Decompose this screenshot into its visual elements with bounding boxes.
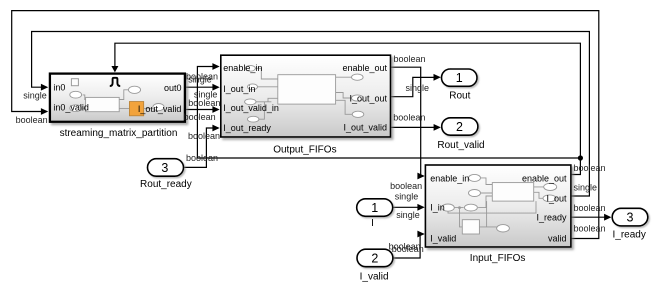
preview ellipse 3 [153, 104, 164, 111]
preview center rect [86, 97, 120, 111]
inport 3 Rout_ready [148, 159, 184, 177]
svg-text:I: I [371, 218, 374, 229]
svg-text:enable_in: enable_in [430, 174, 469, 184]
svg-text:Output_FIFOs: Output_FIFOs [273, 144, 336, 155]
svg-text:single: single [396, 210, 420, 220]
svg-text:Rout_valid: Rout_valid [437, 140, 484, 151]
wire valid net: Input_FIFOs.valid to in0_valid (wraps around top) [12, 11, 599, 239]
arrowhead enable_in Output_FIFOs [212, 63, 219, 70]
svg-text:3: 3 [161, 161, 168, 175]
trigger pulse symbol [110, 78, 120, 86]
wire out0 to I_out_in [185, 86, 218, 88]
inport 2 I_valid [357, 249, 393, 267]
arrowhead I_out_valid_in [212, 106, 219, 113]
preview big rect [492, 183, 533, 202]
arrowhead I_valid [417, 231, 424, 238]
arrowhead Rout [434, 74, 441, 81]
svg-text:streaming_matrix_partition: streaming_matrix_partition [60, 128, 178, 139]
svg-text:boolean: boolean [574, 163, 606, 173]
subsystem streaming_matrix_partition [50, 74, 185, 122]
svg-text:single: single [23, 90, 47, 100]
svg-text:I_out_in: I_out_in [223, 84, 255, 94]
svg-text:boolean: boolean [188, 98, 220, 108]
svg-text:3: 3 [627, 211, 634, 225]
preview orange block [129, 102, 143, 116]
arrowhead I_out_ready [212, 125, 219, 132]
wire Input_FIFOs.I_ready to I_ready port [571, 216, 610, 218]
svg-text:boolean: boolean [393, 112, 425, 122]
node junction dot on enable net [578, 155, 583, 160]
svg-text:I_out: I_out [546, 194, 567, 204]
svg-text:boolean: boolean [186, 153, 218, 163]
wire I_out net: Input_FIFOs.I_out to in0 (wraps around top) [32, 32, 590, 197]
outport 1 Rout [442, 69, 478, 86]
svg-text:boolean: boolean [16, 115, 48, 125]
subsystem Input_FIFOs [425, 165, 571, 247]
arrowhead I_out_in [212, 84, 219, 91]
wire Output_FIFOs.enable_out to Input_FIFOs.enable_in [391, 67, 424, 176]
subsystem Output_FIFOs [221, 55, 391, 137]
wire I_out_valid to I_out_valid_in [185, 109, 218, 111]
svg-text:I_valid: I_valid [430, 234, 456, 244]
svg-text:I_ready: I_ready [536, 213, 567, 223]
svg-text:Rout: Rout [449, 90, 470, 101]
preview ellipses left [245, 65, 255, 71]
svg-text:boolean: boolean [574, 224, 606, 234]
preview ellipse 2 [128, 86, 140, 93]
svg-text:in0: in0 [53, 82, 65, 92]
arrowhead enable_in Input_FIFOs [417, 173, 424, 180]
svg-text:boolean: boolean [574, 203, 606, 213]
svg-text:I_out_out: I_out_out [349, 94, 387, 104]
arrowhead Rout_valid [434, 124, 441, 131]
svg-text:1: 1 [371, 201, 378, 215]
svg-text:single: single [395, 192, 419, 202]
arrowhead in0 [41, 84, 48, 91]
preview wires Input_FIFOs [448, 178, 544, 227]
svg-text:boolean: boolean [394, 54, 426, 64]
svg-text:single: single [574, 183, 598, 193]
svg-text:in0_valid: in0_valid [53, 103, 89, 113]
svg-text:enable_in: enable_in [223, 63, 262, 73]
preview wires streaming [83, 90, 153, 109]
svg-text:I_out_valid: I_out_valid [138, 104, 182, 114]
wire enable net branch: to Output_FIFOs.enable_in [197, 67, 580, 159]
outport 2 Rout_valid [442, 118, 478, 135]
wire enable net: Input_FIFOs.enable_out up and around top to trigger [115, 43, 581, 174]
svg-text:out0: out0 [164, 83, 182, 93]
preview ellipses right [352, 74, 364, 80]
preview ellipses [469, 174, 481, 181]
svg-text:I_out_valid: I_out_valid [343, 122, 387, 132]
preview junction dot [458, 206, 461, 209]
svg-text:I_out_ready: I_out_ready [223, 123, 271, 133]
svg-text:2: 2 [456, 120, 463, 134]
svg-text:I_in: I_in [430, 203, 445, 213]
wire Output_FIFOs.I_out_valid to Rout_valid port [391, 126, 440, 128]
preview small rect [462, 220, 479, 234]
svg-text:boolean: boolean [188, 131, 220, 141]
svg-text:enable_out: enable_out [342, 63, 387, 73]
svg-text:I_valid: I_valid [360, 272, 389, 283]
svg-text:I_ready: I_ready [613, 229, 646, 240]
svg-text:valid: valid [548, 234, 567, 244]
svg-text:I_out_valid_in: I_out_valid_in [223, 103, 279, 113]
preview square [71, 79, 78, 86]
preview ellipse 1 [70, 91, 82, 98]
svg-text:Rout_ready: Rout_ready [140, 179, 192, 190]
arrowhead I_in [417, 204, 424, 211]
wire I port to I_in [393, 206, 424, 208]
arrowhead trigger (down) [111, 66, 118, 72]
svg-text:single: single [188, 74, 212, 84]
preview big rect [278, 75, 336, 104]
arrowhead I_ready port [604, 214, 611, 221]
preview ellipse in0_valid [70, 105, 82, 112]
outport 3 I_ready [612, 208, 648, 226]
svg-text:1: 1 [456, 71, 463, 85]
svg-text:boolean: boolean [392, 244, 424, 254]
svg-text:2: 2 [371, 251, 378, 265]
wire Rout_ready port to I_out_ready [184, 128, 219, 167]
svg-text:single: single [406, 83, 430, 93]
svg-text:enable_out: enable_out [522, 174, 567, 184]
wire I_valid port to I_valid input [393, 234, 424, 258]
inport 1 I [357, 199, 393, 217]
arrowhead in0_valid [41, 108, 48, 115]
svg-text:boolean: boolean [184, 112, 216, 122]
svg-text:boolean: boolean [390, 181, 422, 191]
wire Output_FIFOs.I_out_out to Rout port [391, 77, 440, 96]
preview wires Output_FIFOs [255, 68, 352, 119]
svg-text:Input_FIFOs: Input_FIFOs [470, 253, 526, 264]
